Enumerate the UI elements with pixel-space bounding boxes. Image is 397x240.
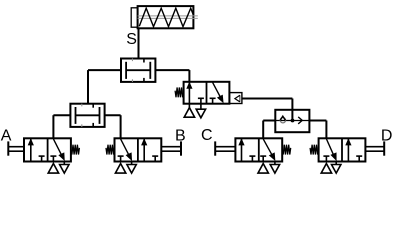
svg-text:C: C — [201, 127, 213, 144]
svg-text:D: D — [381, 128, 393, 145]
svg-text:A: A — [1, 128, 12, 145]
svg-text:S: S — [126, 31, 137, 48]
svg-text:B: B — [175, 128, 186, 145]
